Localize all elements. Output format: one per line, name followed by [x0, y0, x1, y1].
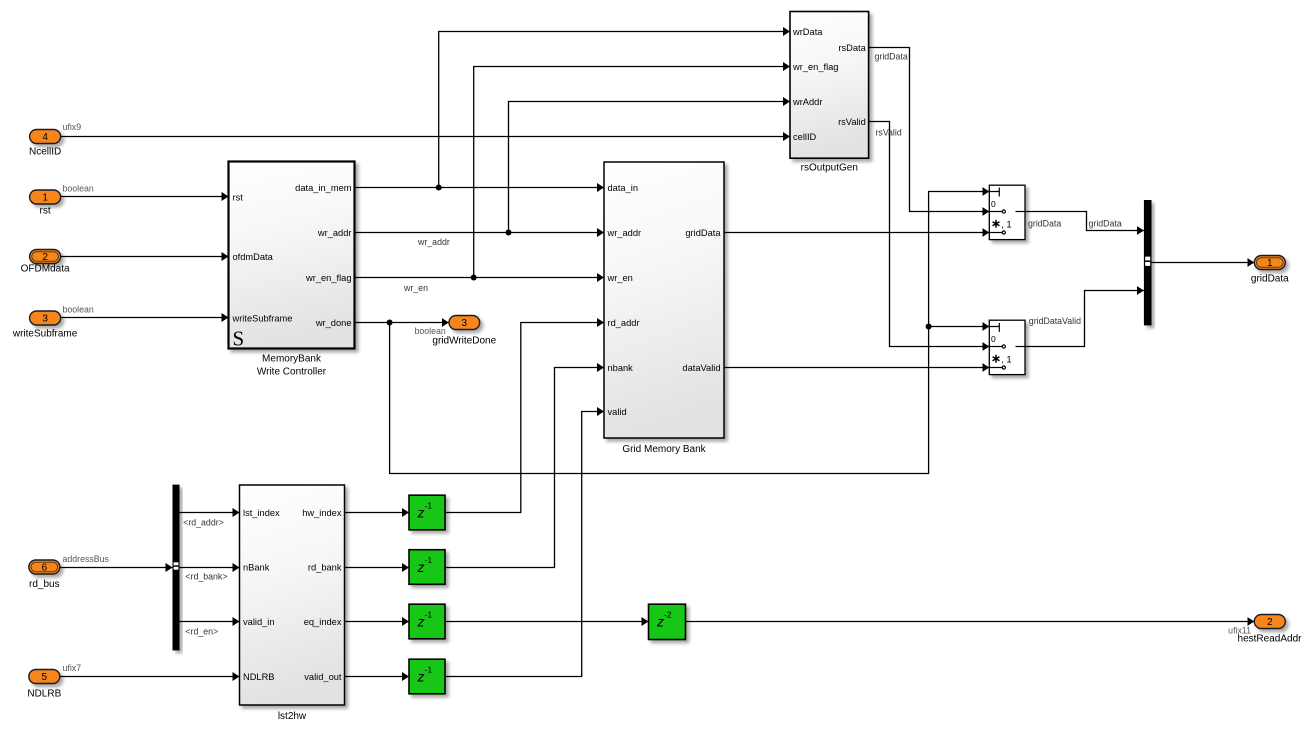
wire wr_done to gridWriteDone — [355, 322, 449, 324]
wire writeSubframe — [61, 317, 229, 319]
svg-text:0: 0 — [991, 199, 996, 209]
svg-text:writeSubframe: writeSubframe — [12, 329, 78, 340]
wire valid_out to delay4 — [345, 676, 410, 678]
inport 4 NcellID — [30, 130, 61, 144]
wire delay4 to Grid valid — [445, 412, 604, 677]
svg-text:valid: valid — [608, 407, 627, 417]
wire data_in_mem to Grid data_in — [355, 187, 605, 189]
svg-text:3: 3 — [462, 318, 468, 329]
node junction wr_en_flag — [471, 275, 477, 281]
svg-text:∗, 1: ∗, 1 — [991, 352, 1012, 366]
svg-text:nbank: nbank — [608, 363, 634, 373]
svg-text:z: z — [656, 614, 664, 630]
wire rd_bus to bus selector — [60, 567, 173, 569]
svg-text:-1: -1 — [425, 610, 433, 620]
svg-text:wr_addr: wr_addr — [607, 228, 642, 238]
svg-text:rsValid: rsValid — [876, 128, 902, 138]
svg-text:wr_en: wr_en — [607, 273, 633, 283]
svg-text:gridData: gridData — [1028, 219, 1061, 229]
delay Z3 z^-1 (eq_index) — [409, 604, 445, 639]
inport 2 OFDMdata (bus) — [30, 250, 61, 264]
svg-text:z: z — [417, 614, 425, 630]
svg-text:lst2hw: lst2hw — [278, 711, 307, 722]
svg-text:rst: rst — [40, 206, 51, 217]
wire wr_en_flag to Grid wr_en — [355, 277, 605, 279]
wire bus selector rd_bank to nBank — [180, 567, 240, 569]
inport 5 NDLRB — [29, 670, 60, 684]
svg-text:ofdmData: ofdmData — [233, 252, 274, 262]
outport 3 gridWriteDone — [449, 316, 480, 330]
svg-text:wr_en_flag: wr_en_flag — [792, 62, 838, 72]
svg-text:hestReadAddr: hestReadAddr — [1238, 634, 1303, 645]
svg-text:MemoryBank: MemoryBank — [262, 354, 322, 365]
svg-text:writeSubframe: writeSubframe — [232, 314, 293, 324]
svg-text:data_in_mem: data_in_mem — [295, 183, 352, 193]
wire wr_addr to Grid wr_addr — [355, 232, 605, 234]
wire branch data_in_mem to wrData — [439, 32, 790, 188]
node junction wr_addr — [506, 230, 512, 236]
node junction data_in_mem — [436, 185, 442, 191]
node junction wr_done — [387, 320, 393, 326]
wire branch wr_en_flag to rsOutputGen wr_en_flag — [474, 67, 790, 278]
svg-text:∗, 1: ∗, 1 — [991, 217, 1012, 231]
svg-text:z: z — [417, 669, 425, 685]
bus creator B2 — [1144, 200, 1152, 325]
wire eq_index to delay3 — [345, 621, 410, 623]
inport 1 rst — [30, 190, 61, 204]
svg-text:hw_index: hw_index — [302, 508, 342, 518]
svg-text:gridWriteDone: gridWriteDone — [432, 336, 496, 347]
svg-text:z: z — [417, 559, 425, 575]
svg-text:NcellID: NcellID — [29, 147, 61, 158]
svg-text:6: 6 — [42, 563, 48, 574]
svg-text:1: 1 — [1267, 258, 1273, 269]
svg-text:nBank: nBank — [243, 563, 270, 573]
svg-text:gridDataValid: gridDataValid — [1029, 316, 1081, 326]
wire rst to MemoryBank rst — [61, 196, 229, 198]
svg-text:NDLRB: NDLRB — [27, 689, 61, 700]
svg-text:valid_out: valid_out — [304, 672, 342, 682]
svg-text:Grid Memory Bank: Grid Memory Bank — [622, 444, 706, 455]
svg-text:OFDMdata: OFDMdata — [21, 264, 70, 275]
wire bus selector rd_addr to lst_index — [180, 512, 240, 514]
svg-text:-1: -1 — [425, 501, 433, 511]
svg-text:gridData: gridData — [1089, 219, 1122, 229]
delay Z1 z^-1 (hw_index) — [409, 495, 445, 530]
subsystem rsOutputGen U1 — [790, 12, 869, 174]
svg-text:rsData: rsData — [838, 43, 866, 53]
outport 1 gridData (bus) — [1254, 256, 1285, 270]
svg-text:wr_en_flag: wr_en_flag — [305, 273, 351, 283]
svg-text:gridData: gridData — [1251, 274, 1289, 285]
svg-text:wrData: wrData — [792, 27, 823, 37]
svg-text:lst_index: lst_index — [243, 508, 280, 518]
delay Z4 z^-1 (valid_out) — [409, 659, 445, 694]
subsystem Grid Memory Bank U3 — [604, 162, 724, 455]
svg-text:ufix9: ufix9 — [63, 122, 82, 132]
delay Z5 z^-2 — [649, 604, 686, 639]
svg-text:wrAddr: wrAddr — [792, 97, 822, 107]
svg-text:NDLRB: NDLRB — [243, 672, 275, 682]
wire Grid gridData to switch1 input 1 — [724, 232, 989, 234]
svg-text:<rd_addr>: <rd_addr> — [183, 518, 224, 528]
outport 2 hestReadAddr — [1254, 615, 1285, 629]
wire OFDMdata to ofdmData — [61, 256, 229, 258]
wire bus creator to gridData outport — [1152, 262, 1255, 264]
wire rsValid to switch2 input 0 — [869, 122, 990, 347]
inport 6 rd_bus (bus) — [29, 560, 60, 574]
svg-text:wr_addr: wr_addr — [317, 228, 352, 238]
wire delay3 to delay z-2 — [445, 621, 649, 623]
svg-text:-1: -1 — [425, 555, 433, 565]
svg-text:-1: -1 — [425, 665, 433, 675]
svg-text:rd_bank: rd_bank — [308, 563, 342, 573]
wire NcellID to cellID — [61, 136, 790, 138]
svg-text:1: 1 — [42, 193, 48, 204]
svg-text:wr_addr: wr_addr — [417, 237, 450, 247]
svg-text:gridData: gridData — [875, 52, 908, 62]
svg-text:z: z — [417, 505, 425, 521]
svg-text:addressBus: addressBus — [63, 554, 110, 564]
svg-text:2: 2 — [42, 252, 48, 263]
svg-text:Write Controller: Write Controller — [257, 367, 327, 378]
svg-text:<rd_en>: <rd_en> — [185, 627, 218, 637]
svg-text:gridData: gridData — [685, 228, 721, 238]
svg-text:dataValid: dataValid — [682, 363, 720, 373]
svg-text:3: 3 — [42, 314, 48, 325]
svg-text:boolean: boolean — [63, 305, 94, 315]
svg-text:data_in: data_in — [608, 183, 639, 193]
node junction control branch — [926, 324, 932, 330]
wire wr_done to switch controls — [390, 192, 990, 474]
svg-text:2: 2 — [1267, 617, 1273, 628]
svg-text:wr_en: wr_en — [403, 283, 428, 293]
wire delay1 to Grid rd_addr — [445, 323, 604, 513]
wire hw_index to delay1 — [345, 512, 410, 514]
switch S1 (gridData select) — [989, 185, 1025, 239]
subsystem MemoryBank Write Controller U2 — [229, 162, 355, 378]
wire rsData to switch1 input 0 — [869, 48, 990, 212]
wire bus selector rd_en to valid_in — [180, 621, 240, 623]
wire NDLRB to lst2hw NDLRB — [60, 676, 240, 678]
svg-text:rd_bus: rd_bus — [29, 579, 60, 590]
svg-text:<rd_bank>: <rd_bank> — [185, 572, 227, 582]
svg-text:0: 0 — [991, 334, 996, 344]
wire Grid dataValid to switch2 input 1 — [724, 367, 989, 369]
wire switch1 output to bus creator — [1025, 212, 1144, 231]
wire branch wr_addr to wrAddr — [509, 102, 791, 233]
svg-text:-2: -2 — [664, 610, 672, 620]
svg-text:S: S — [233, 327, 245, 351]
switch S2 (gridDataValid select) — [989, 320, 1025, 374]
svg-text:cellID: cellID — [793, 132, 817, 142]
svg-text:4: 4 — [42, 132, 48, 143]
svg-text:valid_in: valid_in — [243, 617, 275, 627]
inport 3 writeSubframe — [30, 311, 61, 325]
wire rd_bank to delay2 — [345, 567, 410, 569]
wire delay2 to Grid nbank — [445, 368, 604, 568]
svg-text:rd_addr: rd_addr — [608, 318, 640, 328]
svg-text:rst: rst — [233, 193, 244, 203]
svg-text:boolean: boolean — [63, 184, 94, 194]
wire control branch to switch2 — [929, 326, 990, 328]
svg-text:rsValid: rsValid — [838, 117, 866, 127]
bus selector B1 — [173, 485, 180, 651]
svg-text:wr_done: wr_done — [315, 318, 352, 328]
svg-text:boolean: boolean — [415, 326, 446, 336]
svg-text:ufix7: ufix7 — [63, 663, 82, 673]
svg-text:rsOutputGen: rsOutputGen — [801, 163, 858, 174]
wire switch2 output to bus creator — [1025, 291, 1144, 347]
svg-text:eq_index: eq_index — [304, 617, 342, 627]
wire delay z-2 to hestReadAddr — [686, 621, 1255, 623]
subsystem lst2hw U4 — [240, 485, 345, 722]
svg-text:5: 5 — [42, 672, 48, 683]
delay Z2 z^-1 (rd_bank) — [409, 550, 445, 585]
